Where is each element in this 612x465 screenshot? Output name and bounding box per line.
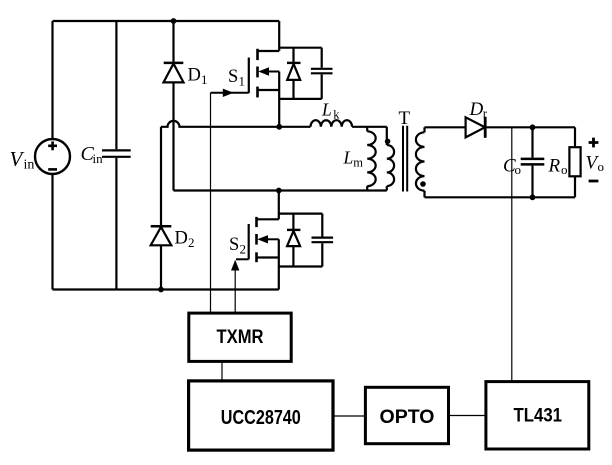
transistor S2 (MOSFET): [249, 191, 279, 290]
minus mark (output): [589, 180, 599, 183]
svg-text:o: o: [515, 162, 522, 177]
svg-text:OPTO: OPTO: [380, 406, 435, 428]
node junction: output- / Co: [530, 194, 536, 200]
wire left rail lower (Vin- to bottom rail): [51, 174, 53, 290]
svg-text:1: 1: [239, 73, 246, 88]
gate wire to S1 with arrow: [211, 89, 249, 313]
label Ro: [548, 155, 568, 177]
snubber diode of S1: [279, 48, 322, 99]
wire left rail upper (Vin+ to top rail): [51, 21, 53, 139]
capacitor Cin: [102, 21, 131, 290]
svg-text:S: S: [228, 67, 238, 87]
svg-text:TXMR: TXMR: [217, 326, 264, 348]
node junction: node X / S1 source: [276, 124, 282, 130]
block TL431: [486, 382, 589, 449]
inductor Lm (magnetizing): [367, 127, 376, 191]
transformer T secondary winding: [416, 127, 426, 197]
wire Dr cathode to output node: [485, 126, 575, 128]
wire TXMR to UCC28740: [221, 361, 223, 381]
wire node X left segment with hop over D1 line: [161, 121, 279, 127]
svg-text:L: L: [343, 148, 354, 168]
svg-text:S: S: [229, 235, 239, 255]
wire bottom rail: [53, 288, 279, 290]
block UCC28740: [189, 381, 333, 450]
label S2: [229, 235, 246, 256]
label D1: [188, 66, 208, 87]
label Lk: [321, 100, 340, 122]
inductor Lk: [279, 120, 387, 127]
resistor Ro: [569, 127, 580, 197]
svg-text:1: 1: [201, 72, 208, 87]
label Dr: [469, 99, 488, 121]
gate wire to S2 with arrow: [231, 259, 249, 313]
label S1: [228, 67, 245, 88]
svg-text:2: 2: [240, 241, 247, 256]
wire OPTO to TL431: [449, 415, 486, 417]
svg-text:2: 2: [188, 235, 195, 250]
svg-text:in: in: [24, 158, 35, 173]
diode Dr: [466, 117, 486, 138]
svg-text:D: D: [175, 228, 188, 248]
capacitor Co: [521, 127, 545, 197]
svg-text:R: R: [548, 155, 561, 176]
snubber capacitor of S1: [311, 48, 333, 99]
node junction: output+ / Co: [530, 124, 536, 130]
transformer T core: [403, 126, 407, 192]
label Vo with polarity: [586, 152, 605, 174]
label Cin: [81, 143, 104, 166]
voltage source Vin: [35, 139, 70, 174]
label Lm: [343, 148, 364, 170]
wire UCC28740 to OPTO: [333, 415, 365, 417]
svg-text:T: T: [399, 108, 411, 129]
transformer T primary winding: [385, 127, 394, 191]
snubber diode of S2: [279, 214, 323, 267]
label Vin: [10, 147, 35, 173]
svg-text:m: m: [353, 155, 363, 169]
svg-text:r: r: [483, 106, 488, 121]
label Co: [503, 155, 521, 177]
diode D2: [151, 127, 172, 290]
svg-text:UCC28740: UCC28740: [221, 406, 301, 429]
block OPTO: [365, 387, 448, 443]
block TXMR: [189, 313, 291, 361]
wire feedback (output to TL431): [511, 127, 513, 381]
node junction: node Y / S2 drain: [276, 188, 282, 194]
wire secondary bottom (output return): [425, 196, 576, 198]
wire secondary top (to Dr anode): [425, 126, 466, 128]
plus mark (output): [589, 138, 599, 148]
snubber capacitor of S2: [312, 214, 334, 267]
svg-text:D: D: [469, 99, 484, 120]
diode D1: [164, 21, 184, 191]
svg-text:in: in: [93, 151, 104, 166]
svg-text:k: k: [333, 107, 340, 121]
label T: [399, 108, 411, 129]
node junction: top rail / D1: [171, 18, 177, 24]
svg-text:o: o: [561, 162, 568, 177]
node junction: bottom rail / D2: [158, 287, 164, 293]
wire node Y (primary bottom): [174, 189, 387, 191]
svg-text:D: D: [188, 66, 201, 86]
svg-text:V: V: [10, 147, 25, 171]
svg-text:TL431: TL431: [514, 405, 563, 427]
svg-text:o: o: [598, 159, 605, 174]
svg-text:L: L: [321, 100, 332, 120]
label D2: [175, 228, 195, 250]
wire top rail: [53, 20, 280, 22]
transistor S1 (MOSFET): [249, 21, 279, 127]
